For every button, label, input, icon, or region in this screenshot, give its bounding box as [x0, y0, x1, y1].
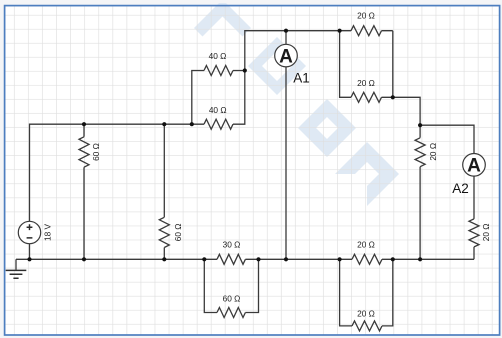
junction: top rail / 20Ω pair left — [338, 29, 342, 33]
junction: bottom bus / R5-R6 left — [202, 257, 206, 261]
resistor R11 20 Ω (on bottom bus, right) — [352, 239, 382, 264]
junction: bottom bus / R11-R12 right — [391, 257, 395, 261]
svg-text:40 Ω: 40 Ω — [209, 105, 227, 115]
svg-text:20 Ω: 20 Ω — [357, 239, 375, 249]
junction: top rail / ammeter A1 branch — [284, 29, 288, 33]
svg-text:20 Ω: 20 Ω — [357, 78, 375, 88]
resistor R3 40 Ω (upper of parallel pair) — [192, 51, 245, 124]
svg-text:30 Ω: 30 Ω — [223, 239, 241, 249]
wire: 20Ω pair output right and down to node — [393, 97, 420, 125]
resistor R7 20 Ω (top right, upper) — [340, 11, 393, 36]
svg-text:20 Ω: 20 Ω — [481, 224, 491, 242]
svg-text:60 Ω: 60 Ω — [91, 143, 101, 161]
wire: source top up to top bus, bus runs right to bottom 40ohm — [30, 124, 205, 221]
svg-text:60 Ω: 60 Ω — [223, 293, 241, 303]
resistor R8 20 Ω (top right, lower) — [340, 31, 393, 103]
junction: bottom bus / ammeter A1 — [284, 257, 288, 261]
junction: node to R9 and A2 — [418, 123, 422, 127]
svg-text:A: A — [279, 46, 293, 67]
svg-text:60 Ω: 60 Ω — [173, 224, 183, 242]
junction: bottom bus / R11-R12 left — [338, 257, 342, 261]
resistor R9 20 Ω (vertical, centre right) — [415, 125, 438, 259]
resistor R12 20 Ω (parallel loop below R11) — [340, 259, 393, 331]
resistor R4 40 Ω (lower of parallel pair, on top bus) — [204, 71, 245, 130]
svg-text:18 V: 18 V — [43, 224, 53, 242]
svg-text:40 Ω: 40 Ω — [209, 51, 227, 61]
svg-text:A: A — [467, 156, 481, 177]
voltage source V1 18 V — [18, 221, 52, 259]
wire: 40Ω junction up to top rail, right to 20Ω pair — [245, 31, 340, 71]
svg-text:A1: A1 — [293, 71, 310, 86]
junction: top bus / 40Ω pair left — [190, 122, 194, 126]
resistor R2 60 Ω (vertical, middle) — [159, 124, 183, 259]
junction: top bus / R2 — [162, 122, 166, 126]
svg-text:20 Ω: 20 Ω — [357, 11, 375, 21]
resistor R5 30 Ω (on bottom bus) — [217, 239, 245, 264]
junction: bottom bus / R1 — [82, 257, 86, 261]
wire: node right to ammeter A2 — [420, 125, 474, 153]
svg-text:A2: A2 — [452, 181, 469, 196]
ammeter A2 — [452, 154, 485, 197]
wire: bottom bus right section — [382, 258, 474, 260]
junction: 40Ω pair right / top rail — [243, 68, 247, 72]
junction: top bus / R1 — [82, 122, 86, 126]
svg-text:20 Ω: 20 Ω — [428, 143, 438, 161]
svg-text:20 Ω: 20 Ω — [357, 308, 375, 318]
junction: bottom bus / R9 — [418, 257, 422, 261]
junction: bottom bus / R5-R6 right — [256, 257, 260, 261]
ammeter A1 — [275, 31, 310, 260]
resistor R10 20 Ω (vertical, far right) — [469, 176, 491, 259]
junction: bottom bus / source — [27, 257, 31, 261]
wire: bottom bus middle section — [245, 258, 352, 260]
junction: 20Ω pair right — [391, 95, 395, 99]
wire: bottom bus left section (ground to 30ohm) — [16, 258, 217, 260]
resistor R1 60 Ω (vertical, left) — [79, 124, 101, 259]
ground — [6, 259, 27, 278]
resistor R6 60 Ω (parallel loop below 30 Ω) — [204, 259, 258, 317]
junction: bottom bus / R2 — [162, 257, 166, 261]
